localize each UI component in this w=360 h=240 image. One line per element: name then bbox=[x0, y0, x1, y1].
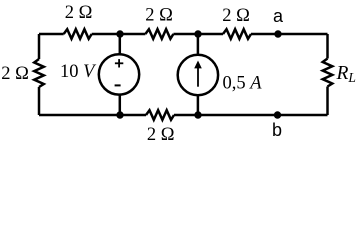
current source arrow bbox=[194, 61, 202, 87]
wire right vertical lower bbox=[326, 87, 329, 116]
wire stub source I top bbox=[197, 34, 200, 56]
voltage source plus sign bbox=[115, 59, 123, 67]
svg-text:2 Ω: 2 Ω bbox=[145, 5, 173, 25]
node dot top V bbox=[116, 30, 123, 37]
resistor R bottom (2 ohm) bbox=[146, 110, 174, 120]
node dot top I bbox=[194, 30, 201, 37]
resistor RL right vertical bbox=[323, 59, 333, 87]
wire left vertical lower bbox=[38, 87, 41, 115]
wire stub source V bottom bbox=[119, 94, 122, 116]
resistor R top-middle (2 ohm) bbox=[145, 29, 173, 39]
resistor R top-right (2 ohm) bbox=[223, 29, 251, 39]
node dot bottom I bbox=[194, 111, 201, 118]
wire top between R2 and R3 bbox=[173, 33, 223, 36]
wire top from left corner to R1 bbox=[39, 33, 64, 36]
wire top between R1 and R2 bbox=[92, 33, 146, 36]
wire stub source V top bbox=[119, 34, 122, 56]
wire left vertical upper bbox=[38, 34, 41, 59]
svg-text:10 V: 10 V bbox=[60, 62, 97, 82]
svg-text:2 Ω: 2 Ω bbox=[147, 125, 175, 145]
wire bottom right segment bbox=[174, 114, 328, 117]
svg-text:0,5 A: 0,5 A bbox=[223, 74, 263, 94]
svg-text:2 Ω: 2 Ω bbox=[1, 64, 29, 84]
svg-text:b: b bbox=[272, 120, 282, 140]
node dot a bbox=[274, 30, 281, 37]
wire bottom left segment bbox=[39, 114, 146, 117]
current source I1 circle bbox=[178, 55, 218, 95]
voltage source minus sign bbox=[115, 84, 121, 86]
node dot bottom V bbox=[116, 111, 123, 118]
resistor R top-left (2 ohm) bbox=[64, 29, 92, 39]
svg-text:2 Ω: 2 Ω bbox=[222, 6, 250, 26]
wire top from R3 to node a and right corner bbox=[251, 33, 328, 36]
svg-text:a: a bbox=[273, 6, 284, 26]
svg-text:2 Ω: 2 Ω bbox=[65, 3, 93, 23]
node dot b bbox=[274, 111, 281, 118]
resistor left vertical (2 ohm) bbox=[34, 59, 44, 87]
wire right vertical upper bbox=[326, 34, 329, 59]
wire stub source I bottom bbox=[197, 94, 200, 115]
voltage source V1 circle bbox=[99, 54, 139, 94]
